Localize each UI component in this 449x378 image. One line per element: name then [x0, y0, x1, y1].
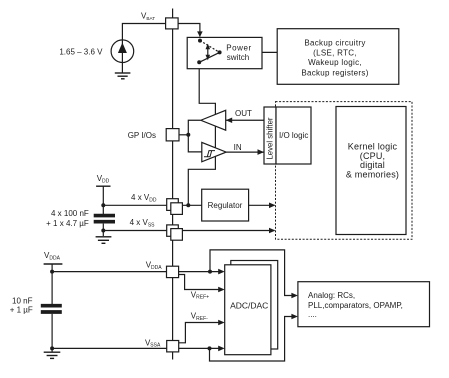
- arrowhead VSSA into ADC/DAC: [218, 346, 225, 352]
- IN buffer (schmitt input): [202, 142, 226, 161]
- junction dot VSS tap: [101, 229, 105, 233]
- svg-text:Analog: RCs,: Analog: RCs,: [308, 291, 355, 300]
- power switch U1 box: [187, 37, 262, 68]
- level shifter box: [264, 107, 276, 164]
- svg-text:1.65 – 3.6 V: 1.65 – 3.6 V: [59, 48, 103, 57]
- wire: VDDA branch to analog block (top route): [210, 250, 292, 296]
- svg-text:Regulator: Regulator: [208, 201, 243, 210]
- arrowhead IN (into level shifter): [258, 149, 265, 155]
- wire: VREF- branch: [179, 323, 219, 343]
- junction dot regulator input: [186, 203, 190, 207]
- svg-text:10 nF: 10 nF: [12, 297, 33, 306]
- label GP I/Os: [128, 131, 156, 140]
- svg-text:+ 1 x 4.7 µF: + 1 x 4.7 µF: [46, 219, 89, 228]
- arrowhead VREF- into ADC/DAC: [218, 320, 225, 326]
- svg-text:4 x VDD: 4 x VDD: [131, 193, 157, 203]
- 4xVDD pin squares: [167, 199, 183, 215]
- arrowhead OUT (into OUT buffer): [226, 117, 233, 123]
- VSSA pin square: [167, 341, 179, 352]
- svg-text:VREF-: VREF-: [191, 312, 208, 322]
- label 4 x VSS: [130, 218, 156, 228]
- regulator text: [208, 201, 243, 210]
- label VDD: [97, 174, 110, 184]
- analog block text: [308, 291, 403, 319]
- capacitor C1 4x100nF plates: [94, 216, 115, 222]
- wire: VSSA pin to ADC/DAC: [179, 347, 219, 349]
- analog block box: [298, 282, 430, 327]
- arrowhead VREF+ into ADC/DAC: [218, 287, 225, 293]
- wire: VSS rail to 4xVSS pin: [103, 230, 166, 232]
- svg-text:+ 1 µF: + 1 µF: [10, 305, 33, 314]
- svg-text:ADC/DAC: ADC/DAC: [230, 301, 268, 311]
- wire: capacitor C1 lower stem to VSS rail: [102, 224, 104, 236]
- svg-text:4 x 100 nF: 4 x 100 nF: [51, 209, 89, 218]
- ADC/DAC stack back box: [231, 261, 278, 350]
- junction dot VSSA-analog branch: [208, 346, 212, 350]
- wire: VSSA branch to analog block (bottom route): [210, 317, 293, 362]
- svg-text:PLL,comparators, OPAMP,: PLL,comparators, OPAMP,: [308, 301, 403, 310]
- wire: 4xVSS pin to kernel logic: [182, 230, 274, 232]
- ADC/DAC text: [230, 301, 268, 311]
- ground (below source): [115, 73, 131, 79]
- svg-text:Backup circuitry: Backup circuitry: [304, 39, 365, 48]
- svg-text:OUT: OUT: [235, 109, 252, 118]
- wire: power switch output to backup circuitry: [220, 51, 278, 53]
- VDDA pin square: [167, 266, 179, 277]
- svg-text:switch: switch: [227, 53, 250, 62]
- svg-text:(LSE, RTC,: (LSE, RTC,: [313, 48, 357, 57]
- arrowhead VDDA into ADC/DAC: [218, 269, 225, 275]
- wire: junction down to IN buffer: [188, 135, 202, 152]
- label 4x100nF + 1x4.7uF: [46, 209, 89, 228]
- svg-text:....: ....: [308, 310, 317, 319]
- I/O logic text: [279, 131, 308, 140]
- junction dot GP I/Os: [186, 133, 190, 137]
- wire: junction up to OUT buffer: [188, 120, 200, 135]
- svg-text:4 x VSS: 4 x VSS: [130, 218, 156, 228]
- wire: VREF+ branch: [179, 275, 219, 290]
- wire: VDDA pin to ADC/DAC: [179, 271, 219, 273]
- kernel logic box: [336, 107, 406, 235]
- wire: VDDA T-bar stem down through C2 to ground: [51, 264, 53, 304]
- kernel logic text: [346, 142, 399, 180]
- I/O logic box: [276, 107, 311, 164]
- svg-text:VDDA: VDDA: [44, 251, 61, 261]
- svg-text:Backup registers): Backup registers): [301, 69, 368, 78]
- GP I/Os pin square: [166, 129, 179, 141]
- arrowhead regulator to kernel: [269, 203, 276, 209]
- wire: VDD T-bar stem: [102, 186, 104, 214]
- VDD T-bar: [96, 185, 110, 187]
- wire: regulator output to kernel logic: [249, 204, 275, 206]
- label VSSA (pin): [145, 338, 161, 348]
- arrowhead into power switch: [197, 31, 203, 37]
- label OUT: [235, 109, 252, 118]
- svg-text:VDDA: VDDA: [146, 261, 163, 271]
- svg-text:Level shifter: Level shifter: [265, 117, 274, 159]
- label VDDA (pin): [146, 261, 163, 271]
- label VDDA (T-bar): [44, 251, 61, 261]
- level shifter text: [265, 117, 274, 159]
- wire: power switch bottom to VDD rail (buffer supply): [188, 62, 215, 205]
- backup circuitry text: [301, 39, 368, 78]
- junction dot VDDA-analog branch: [208, 270, 212, 274]
- wire: VBAT pin to power switch: [178, 24, 200, 37]
- ground (below C1): [96, 237, 112, 244]
- backup circuitry box: [277, 29, 399, 85]
- label 1.65-3.6V: [59, 48, 103, 57]
- capacitor C2 10nF+1uF plates: [41, 306, 62, 312]
- label VBAT: [141, 12, 155, 21]
- svg-text:Power: Power: [226, 44, 251, 53]
- arrowhead VSS to kernel: [269, 228, 276, 234]
- VBAT pin square: [166, 18, 179, 29]
- OUT buffer (output driver): [201, 110, 226, 130]
- ADC/DAC front box: [225, 265, 271, 355]
- label VREF+: [191, 290, 209, 300]
- label IN: [234, 143, 242, 152]
- svg-text:I/O logic: I/O logic: [279, 131, 308, 140]
- svg-text:Wakeup logic,: Wakeup logic,: [308, 58, 362, 67]
- arrowhead top route into analog block: [291, 293, 298, 299]
- arrowhead bottom route into analog block: [291, 314, 298, 320]
- main pin column wire: [172, 9, 174, 360]
- wire: VDD tap to 4xVDD pin: [103, 204, 166, 206]
- svg-text:VSSA: VSSA: [145, 338, 161, 348]
- wire: GP I/Os pin to buffers junction: [179, 134, 188, 136]
- junction dot VDDA tap: [50, 270, 54, 274]
- svg-text:IN: IN: [234, 143, 242, 152]
- wire: IN signal from IN buffer to level shifter: [226, 151, 263, 153]
- kernel/analog dashed boundary box: [276, 102, 413, 240]
- voltage source V1 1.65-3.6V: [111, 40, 134, 63]
- wire: OUT signal from level shifter to OUT buffer: [226, 119, 264, 121]
- wire: 4xVDD pin to regulator: [182, 204, 201, 206]
- wire: source to VBAT pin: [122, 24, 165, 73]
- svg-text:VREF+: VREF+: [191, 290, 209, 300]
- power switch text: [226, 44, 251, 63]
- svg-text:& memories): & memories): [346, 170, 399, 180]
- junction dot VSSA ground: [50, 346, 54, 350]
- label VREF-: [191, 312, 208, 322]
- label 4 x VDD: [131, 193, 157, 203]
- wire: VSSA rail to VSSA pin: [52, 347, 167, 349]
- svg-text:VDD: VDD: [97, 174, 110, 184]
- ground (below C2 / VSSA): [44, 352, 61, 358]
- svg-text:GP I/Os: GP I/Os: [128, 131, 156, 140]
- 4xVSS pin squares: [167, 225, 183, 240]
- VDDA T-bar: [44, 263, 63, 265]
- regulator box: [202, 189, 249, 221]
- wire: VDDA rail to VDDA pin: [52, 271, 166, 273]
- power switch internals: [197, 39, 221, 65]
- label 10nF + 1uF: [10, 297, 33, 315]
- svg-text:VBAT: VBAT: [141, 12, 155, 21]
- junction dot VDD tap: [101, 203, 105, 207]
